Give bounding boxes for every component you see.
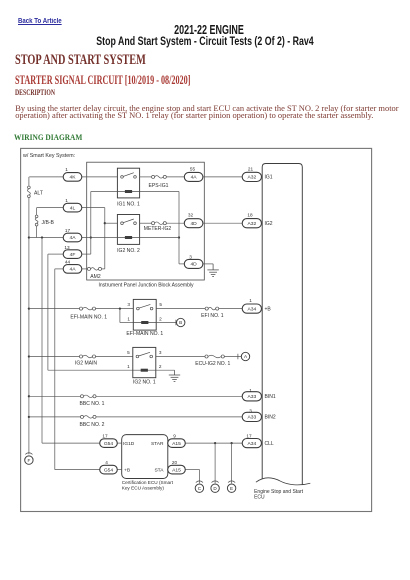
wire IG1 coil right — [140, 191, 179, 193]
wire 4K to IG1 relay — [82, 176, 118, 178]
wire bus to BBC NO.2 fuse — [29, 416, 81, 418]
wire EFI NO.1 fuse to A34 — [219, 308, 242, 310]
wire 4A pin44 to AM2 — [82, 268, 88, 270]
wire 4F left — [48, 253, 63, 255]
junction 179-237 — [178, 236, 180, 238]
svg-text:ECU-IG2 NO. 1: ECU-IG2 NO. 1 — [195, 361, 230, 367]
wire 4F right — [82, 253, 91, 255]
ground G1 — [207, 264, 218, 277]
wire bus to 4A pin17 — [29, 237, 63, 239]
junction bus-EFI-MAIN — [28, 307, 30, 309]
svg-text:+B: +B — [124, 467, 130, 473]
svg-text:IG2 NO. 2: IG2 NO. 2 — [117, 248, 140, 254]
svg-text:3: 3 — [159, 350, 162, 355]
wire to EFI relay pin1 — [120, 322, 133, 324]
wire vertical to G54 pin4 — [54, 269, 56, 470]
svg-text:4D: 4D — [190, 262, 197, 268]
wire main left bus — [28, 198, 30, 455]
svg-text:E: E — [230, 486, 233, 491]
wire bus to IG2 MAIN fuse — [29, 356, 80, 358]
wire IG1 relay to EPS-IG1 fuse — [140, 176, 152, 178]
svg-text:9: 9 — [173, 433, 176, 438]
svg-text:17: 17 — [65, 228, 71, 233]
wire IG2 coil right — [140, 237, 179, 239]
connector G54 (G54 pin4) — [100, 465, 118, 474]
svg-text:J/B-B: J/B-B — [42, 220, 55, 226]
wire bus to BBC NO.1 fuse — [29, 395, 81, 397]
svg-text:17: 17 — [102, 433, 108, 438]
wire 4L left — [37, 207, 64, 209]
wire IG1 coil left — [91, 191, 118, 193]
wire 4D pin32 to A32 — [203, 222, 242, 224]
wire to G54 pin17 — [42, 442, 100, 444]
svg-text:A33: A33 — [248, 415, 257, 421]
wire vertical to G54 pin17 — [41, 238, 43, 444]
fuse ECU-IG2 NO. 1 — [205, 355, 224, 358]
wire vertical 4F to IG2 relay — [47, 254, 49, 370]
wire BBC NO.2 to A33 — [96, 416, 242, 418]
connector 4A (4A pin17) — [63, 233, 82, 242]
svg-text:A34: A34 — [248, 306, 257, 312]
connector 4K (4K pin1) — [63, 173, 82, 182]
relay IG2 NO. 1 — [133, 347, 156, 377]
wire ECU-IG2 fuse to connector A — [224, 356, 241, 358]
wire J/B-B upper — [36, 208, 38, 216]
connector 4F (4F pin13) — [63, 250, 82, 259]
fuse ALT — [27, 186, 30, 198]
junction E tap — [230, 442, 232, 444]
svg-text:Key ECU Assembly): Key ECU Assembly) — [122, 485, 165, 490]
connector A34 pin1 — [242, 304, 261, 313]
svg-text:55: 55 — [190, 166, 196, 171]
wire vertical 104.8 — [104, 208, 106, 269]
connector 4L (4L pin1) — [63, 203, 82, 212]
wire BBC NO.1 to A33 — [96, 395, 242, 397]
node connector F — [25, 453, 33, 465]
junction 104.8-223 — [104, 222, 106, 224]
relay EFI-MAIN NO. 1 — [133, 299, 156, 330]
svg-text:w/ Smart Key System:: w/ Smart Key System: — [23, 153, 75, 159]
svg-text:A32: A32 — [248, 175, 257, 181]
svg-text:+B: +B — [265, 306, 272, 312]
connector 4D (4D pin32) — [184, 219, 203, 228]
junction bus-BBC1 — [28, 395, 30, 397]
wire EFI relay pin5 to EFI NO.1 fuse — [156, 308, 205, 310]
svg-text:2: 2 — [159, 364, 162, 369]
wire A15 pin20 right — [185, 469, 199, 471]
wire to IG2 NO.2 relay — [105, 222, 118, 224]
svg-text:4K: 4K — [69, 175, 76, 181]
svg-text:G54: G54 — [104, 467, 114, 473]
connector 4A (4A pin55) — [184, 172, 203, 181]
svg-text:ECU: ECU — [254, 494, 265, 500]
svg-text:IG1D: IG1D — [123, 441, 135, 447]
wire METER-IG2 to 4D pin32 — [166, 222, 184, 224]
svg-text:IG1 NO. 1: IG1 NO. 1 — [117, 201, 140, 207]
svg-text:13: 13 — [64, 245, 70, 250]
node connector E — [227, 481, 235, 493]
wire 4A pin44 left — [55, 268, 63, 270]
wire EFI-MAIN fuse to relay pin3 — [96, 308, 134, 310]
svg-text:1: 1 — [65, 198, 68, 203]
junction D tap — [214, 442, 216, 444]
wire G54 pin17 to cert ECU — [117, 442, 121, 444]
wire down to pin1 — [119, 309, 121, 323]
Certification ECU (Smart Key ECU Assembly) box U-CERT — [122, 435, 168, 479]
fuse EPS-IG1 — [152, 175, 167, 178]
svg-text:2: 2 — [159, 316, 162, 321]
svg-text:IG2: IG2 — [265, 221, 273, 227]
ground G2 — [169, 370, 180, 381]
wire to IG2 NO.1 pin1 — [48, 369, 133, 371]
connector A32 pin21 — [242, 172, 261, 181]
svg-text:44: 44 — [65, 259, 71, 264]
svg-text:1: 1 — [127, 316, 130, 321]
node connector D — [211, 481, 219, 493]
connector A15 (A15 pin20) — [168, 465, 186, 474]
svg-text:4D: 4D — [190, 221, 197, 227]
wire J/B-B lower — [36, 226, 38, 238]
svg-text:1: 1 — [249, 388, 252, 393]
wire to 4D pin3 — [179, 263, 184, 265]
svg-text:4A: 4A — [69, 235, 76, 241]
wire 4A pin55 to A32 — [203, 176, 242, 178]
svg-text:A15: A15 — [172, 467, 181, 473]
svg-text:STA: STA — [154, 467, 164, 473]
wire bus top segment — [28, 177, 30, 186]
wire to G54 pin4 — [55, 469, 100, 471]
svg-text:STAR: STAR — [151, 441, 164, 447]
svg-text:METER-IG2: METER-IG2 — [144, 226, 172, 232]
svg-text:EFI-MAIN NO. 1: EFI-MAIN NO. 1 — [126, 331, 163, 337]
svg-text:A32: A32 — [248, 221, 257, 227]
svg-text:17: 17 — [246, 433, 252, 438]
svg-text:18: 18 — [247, 212, 253, 217]
wire EFI relay pin2 to connector B — [156, 322, 176, 324]
svg-text:B: B — [179, 320, 182, 325]
wire IG2 relay pin2 to ground — [156, 369, 175, 371]
connector A32 pin18 — [242, 219, 261, 228]
svg-text:32: 32 — [188, 212, 194, 217]
svg-text:AM2: AM2 — [90, 274, 101, 280]
fuse EFI-MAIN NO. 1 — [79, 307, 95, 310]
svg-text:5: 5 — [159, 302, 162, 307]
svg-text:ALT: ALT — [34, 190, 43, 196]
junction 90.8-237 — [90, 236, 92, 238]
Engine Stop and Start ECU box U-ECU — [256, 164, 310, 486]
connector A33 pin3 — [242, 412, 261, 421]
svg-text:G54: G54 — [104, 441, 114, 447]
svg-text:4L: 4L — [70, 205, 76, 211]
svg-text:BBC NO. 1: BBC NO. 1 — [80, 401, 105, 407]
svg-text:BBC NO. 2: BBC NO. 2 — [80, 422, 105, 428]
diagram frame — [21, 148, 372, 511]
wire IG2 relay to METER-IG2 fuse — [140, 222, 152, 224]
svg-text:EFI-MAIN NO. 1: EFI-MAIN NO. 1 — [70, 314, 107, 320]
node connector B — [176, 318, 185, 326]
wire 4D pin3 to ground — [203, 263, 213, 265]
connector A15 (A15 pin9) — [168, 439, 186, 448]
relay IG2 NO. 2 — [117, 215, 139, 245]
Instrument Panel Junction Block Assembly box — [87, 162, 205, 280]
connector 4D (4D pin3) — [184, 259, 203, 268]
svg-text:20: 20 — [172, 460, 178, 465]
junction EFI pin1 tap — [119, 307, 121, 309]
node connector A — [238, 352, 250, 360]
svg-text:1: 1 — [65, 167, 68, 172]
svg-text:4F: 4F — [70, 252, 76, 258]
fuse BBC NO. 2 — [80, 415, 96, 418]
svg-text:4: 4 — [105, 460, 108, 465]
svg-text:4A: 4A — [69, 267, 76, 273]
junction bus-BBC2 — [28, 416, 30, 418]
fuse BBC NO. 1 — [80, 395, 96, 398]
svg-text:A33: A33 — [248, 394, 257, 400]
connector 4A (4A pin44) — [63, 265, 82, 274]
svg-text:A34: A34 — [248, 441, 257, 447]
wire down to connector E — [231, 443, 233, 483]
wire vertical 179 — [178, 192, 180, 264]
node connector C — [195, 481, 203, 493]
fuse EFI NO. 1 — [205, 307, 219, 310]
svg-text:EFI NO. 1: EFI NO. 1 — [201, 313, 224, 319]
svg-text:IG2 MAIN: IG2 MAIN — [75, 360, 98, 366]
svg-text:BIN2: BIN2 — [265, 415, 276, 421]
svg-text:IG1: IG1 — [265, 175, 273, 181]
svg-text:IG2 NO. 1: IG2 NO. 1 — [133, 380, 156, 386]
wire 4L right — [82, 207, 105, 209]
connector A33 pin1 — [242, 392, 261, 401]
fuse J/B-B — [35, 215, 38, 226]
connector G54 (G54 pin17) — [100, 439, 118, 448]
wire AM2 to vertical — [102, 268, 105, 270]
junction bus-237 — [28, 236, 30, 238]
relay IG1 NO. 1 — [117, 168, 139, 198]
wire EPS-IG1 to 4A pin55 — [166, 176, 184, 178]
svg-text:1: 1 — [249, 298, 252, 303]
svg-text:A15: A15 — [172, 441, 181, 447]
svg-text:F: F — [27, 458, 30, 463]
svg-text:3: 3 — [249, 408, 252, 413]
svg-text:Instrument Panel Junction Bloc: Instrument Panel Junction Block Assembly — [98, 282, 194, 288]
wire IG2 MAIN fuse to relay pin5 — [96, 356, 133, 358]
fuse METER-IG2 — [152, 222, 167, 225]
wire IG2 relay pin3 to ECU-IG2 fuse — [156, 356, 205, 358]
svg-text:3: 3 — [189, 254, 192, 259]
svg-text:Certification ECU (Smart: Certification ECU (Smart — [122, 480, 174, 485]
svg-text:3: 3 — [127, 302, 130, 307]
wire 4K to left bus — [29, 176, 63, 178]
svg-text:EPS-IG1: EPS-IG1 — [149, 183, 169, 189]
svg-text:BIN1: BIN1 — [265, 394, 276, 400]
wire bus to EFI-MAIN fuse — [29, 308, 80, 310]
connector A34 pin17 — [242, 439, 261, 448]
fuse IG2 MAIN — [79, 355, 95, 358]
svg-text:CLL: CLL — [265, 441, 274, 447]
wire G54 pin4 to cert ECU — [117, 469, 121, 471]
svg-text:1: 1 — [127, 364, 130, 369]
junction bus-IG2-MAIN — [28, 355, 30, 357]
svg-text:5: 5 — [127, 350, 130, 355]
svg-text:4A: 4A — [191, 175, 198, 181]
fuse AM2 — [87, 267, 101, 270]
wire A15 pin9 to A34 pin17 — [185, 442, 242, 444]
wire down to connector C — [199, 470, 201, 484]
wire down to connector D — [214, 443, 216, 483]
wire vertical 90.8 — [90, 192, 92, 255]
svg-text:21: 21 — [248, 166, 254, 171]
junction 42-237 — [41, 236, 43, 238]
wire 4A pin17 to IG2 coil — [82, 237, 118, 239]
